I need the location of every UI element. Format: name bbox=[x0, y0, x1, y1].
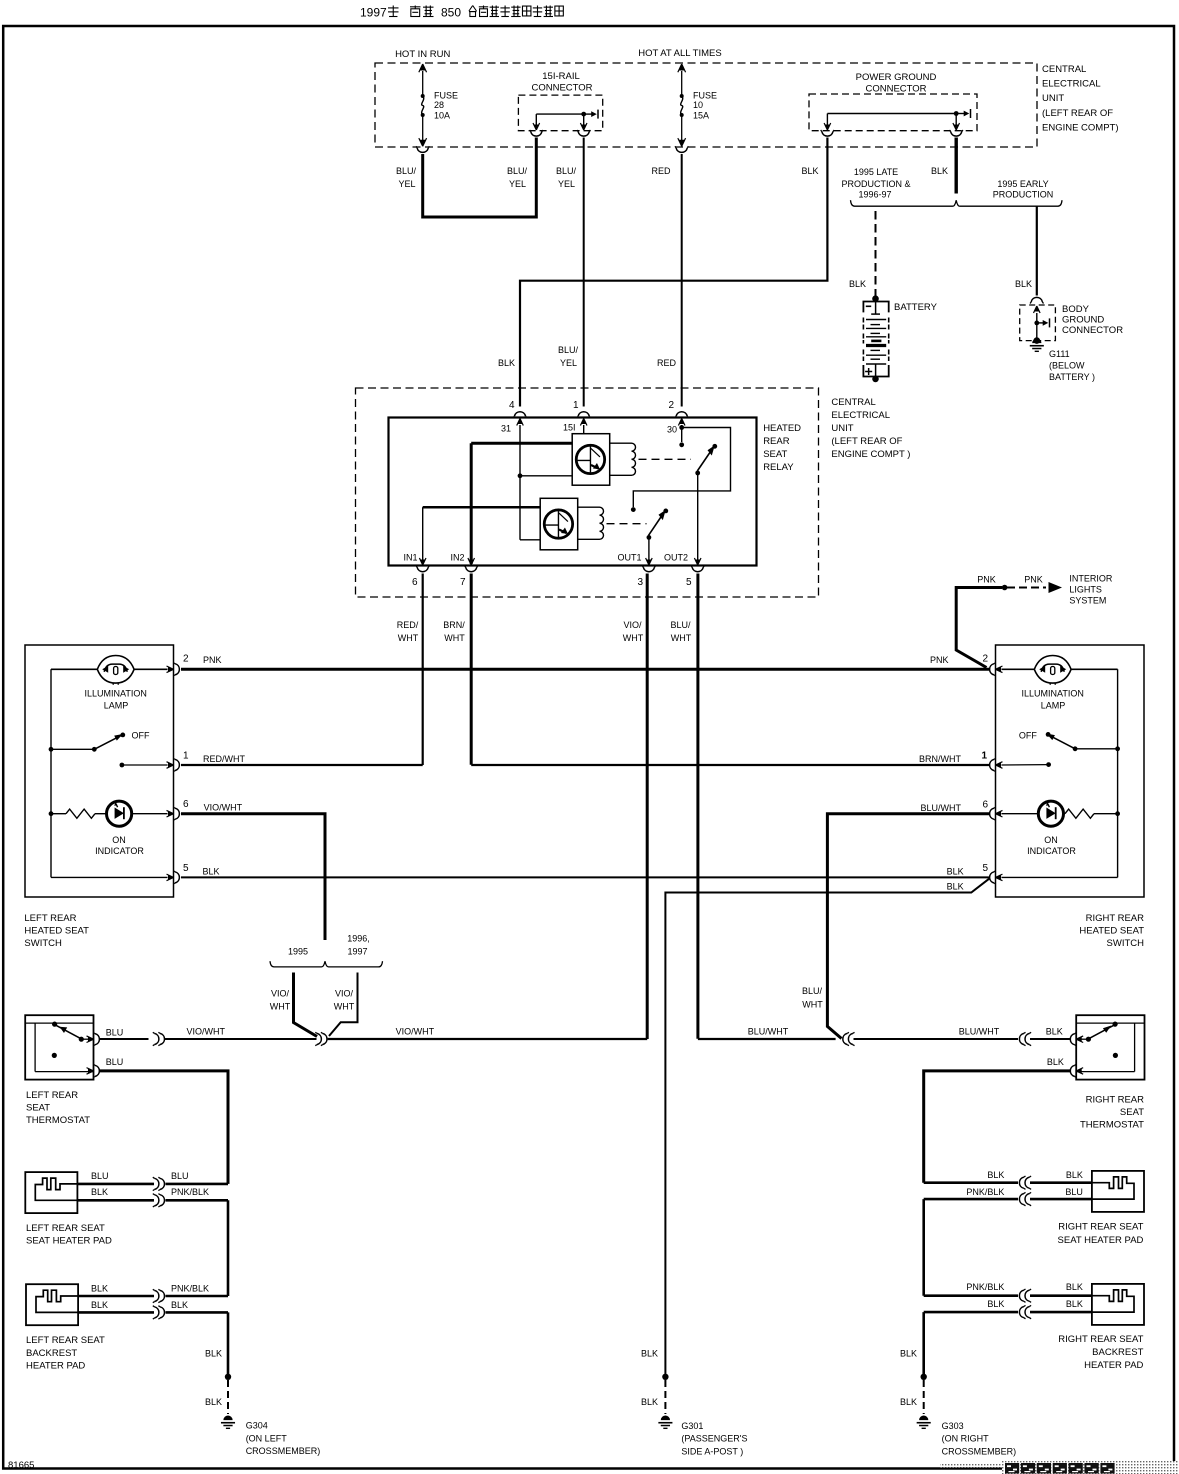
ground G301 bbox=[658, 1416, 672, 1429]
label BLK (right switch pin5 lower) bbox=[947, 882, 964, 892]
ground G111 bbox=[1030, 338, 1044, 351]
svg-text:(ON LEFT: (ON LEFT bbox=[246, 1433, 288, 1443]
svg-text:PRODUCTION &: PRODUCTION & bbox=[841, 179, 910, 189]
svg-text:5: 5 bbox=[183, 863, 189, 874]
label BLU (harness side) bbox=[171, 1171, 189, 1181]
label BLK (pad side, backrest pin1) bbox=[91, 1284, 108, 1294]
svg-text:PNK: PNK bbox=[977, 575, 996, 585]
wire VIO/WHT 1995 variant bbox=[294, 973, 318, 1037]
left switch internal bus wire bbox=[50, 669, 52, 877]
svg-text:BLK: BLK bbox=[1047, 1057, 1064, 1067]
svg-text:BLU: BLU bbox=[91, 1171, 109, 1181]
svg-text:WHT: WHT bbox=[444, 633, 465, 643]
wire BLU thermostat pin2 to seat pad pin1 bbox=[99, 1071, 228, 1184]
svg-text:BATTERY: BATTERY bbox=[894, 302, 938, 313]
left switch pin 2 connector bbox=[167, 663, 180, 676]
relay internal wire OUT1 bbox=[648, 537, 650, 564]
label BLK (dashed, G301) bbox=[641, 1397, 658, 1407]
left switch illumination lamp bbox=[51, 656, 168, 685]
svg-text:ON: ON bbox=[1044, 835, 1058, 845]
svg-text:UNIT: UNIT bbox=[1042, 93, 1064, 104]
svg-text:IN1: IN1 bbox=[403, 553, 417, 563]
wire BLK/PNK-BLK backrest pad pin1 bbox=[78, 1295, 228, 1298]
svg-text:BLK: BLK bbox=[987, 1170, 1004, 1180]
svg-text:YEL: YEL bbox=[560, 358, 577, 368]
relay pin 5 exit connector bbox=[691, 558, 704, 572]
svg-text:BLK: BLK bbox=[203, 867, 220, 877]
svg-text:BACKREST: BACKREST bbox=[26, 1348, 77, 1359]
left switch pin 5 wire bbox=[51, 876, 168, 878]
label ON INDICATOR (right) bbox=[1027, 835, 1076, 856]
label VIO/WHT (1996-97 variant) bbox=[334, 989, 355, 1012]
dashed actuator link (upper) bbox=[639, 458, 692, 460]
right switch pin 6 connector bbox=[990, 807, 1003, 820]
label BLU/YEL (15I-rail left) bbox=[507, 166, 528, 189]
svg-text:(BELOW: (BELOW bbox=[1049, 361, 1085, 371]
relay pin 2 label bbox=[668, 400, 674, 411]
svg-text:10: 10 bbox=[693, 100, 703, 110]
svg-text:WHT: WHT bbox=[671, 633, 692, 643]
svg-text:BLK: BLK bbox=[900, 1349, 917, 1359]
svg-text:30: 30 bbox=[667, 425, 677, 435]
relay internal wire term15I bbox=[583, 425, 585, 434]
svg-text:RIGHT REAR SEAT: RIGHT REAR SEAT bbox=[1058, 1334, 1143, 1345]
label G301 (PASSENGER S SIDE A-POST) bbox=[681, 1421, 747, 1457]
inline connector (seat pad pin2) bbox=[153, 1194, 165, 1207]
label PNK (right switch) bbox=[930, 655, 949, 665]
svg-text:RELAY: RELAY bbox=[763, 462, 794, 473]
svg-text:BLK: BLK bbox=[205, 1397, 222, 1407]
svg-text:BLU: BLU bbox=[171, 1171, 189, 1181]
label PNK/BLK (harness side, seat pad pin2) bbox=[171, 1187, 209, 1197]
dashed actuator link (lower) bbox=[607, 523, 647, 525]
svg-text:PNK: PNK bbox=[930, 655, 949, 665]
svg-text:ELECTRICAL: ELECTRICAL bbox=[831, 410, 890, 421]
right switch pin 1 contact wire bbox=[1002, 762, 1052, 767]
svg-text:VIO/WHT: VIO/WHT bbox=[204, 803, 243, 813]
svg-text:6: 6 bbox=[183, 799, 189, 810]
svg-text:ILLUMINATION: ILLUMINATION bbox=[85, 689, 147, 699]
node HOT IN RUN bbox=[395, 49, 450, 60]
label RED (lower) bbox=[657, 358, 677, 368]
left rear seat seat heater pad bbox=[25, 1172, 77, 1213]
svg-text:LIGHTS: LIGHTS bbox=[1069, 585, 1102, 595]
svg-text:BLU: BLU bbox=[1065, 1187, 1083, 1197]
svg-text:PRODUCTION: PRODUCTION bbox=[993, 190, 1054, 200]
relay pin 1 entry connector bbox=[577, 412, 590, 426]
svg-text:G303: G303 bbox=[942, 1421, 964, 1431]
svg-text:BLK: BLK bbox=[171, 1300, 188, 1310]
relay pin 6 label bbox=[412, 577, 418, 588]
svg-text:OFF: OFF bbox=[132, 731, 150, 741]
label PNK (branch left) bbox=[977, 575, 996, 585]
svg-text:BLU: BLU bbox=[106, 1027, 124, 1037]
right rear seat backrest heater pad bbox=[1092, 1284, 1144, 1325]
svg-text:SEAT: SEAT bbox=[26, 1103, 50, 1114]
right thermostat pin 1 connector bbox=[1070, 1033, 1083, 1046]
inline connector (BLU/WHT to BLK) bbox=[1019, 1032, 1031, 1045]
svg-text:BLK: BLK bbox=[91, 1284, 108, 1294]
svg-text:BLU/: BLU/ bbox=[670, 620, 691, 630]
right switch pin 5 wire bbox=[1002, 876, 1118, 878]
inline connector (right backrest pin1) bbox=[1019, 1289, 1031, 1302]
svg-text:HEATED SEAT: HEATED SEAT bbox=[1079, 926, 1144, 937]
power ground connector bbox=[809, 72, 977, 136]
svg-text:10A: 10A bbox=[434, 111, 450, 121]
svg-text:ON: ON bbox=[112, 835, 126, 845]
label BLU (pad side) bbox=[91, 1171, 109, 1181]
production split brace (left) bbox=[270, 961, 383, 967]
wire BLK switch pin5 bus between switches bbox=[181, 876, 990, 878]
wire VIO/WHT junction to left thermostat bbox=[99, 1032, 316, 1045]
svg-text:(PASSENGER'S: (PASSENGER'S bbox=[681, 1434, 747, 1444]
wire BLK (dashed) to battery bbox=[875, 211, 877, 296]
label IN1 bbox=[403, 553, 417, 563]
svg-text:RIGHT REAR SEAT: RIGHT REAR SEAT bbox=[1058, 1222, 1143, 1233]
label BODY GROUND CONNECTOR bbox=[1062, 304, 1123, 336]
ground G303 bbox=[917, 1416, 931, 1429]
svg-text:SEAT: SEAT bbox=[1120, 1107, 1144, 1118]
label G111 (BELOW BATTERY) bbox=[1049, 349, 1095, 382]
wire BLK right seat pad pin1 bbox=[924, 1181, 1092, 1184]
svg-text:SWITCH: SWITCH bbox=[1107, 938, 1145, 949]
inline connector (right backrest pin2) bbox=[1019, 1305, 1031, 1318]
inline connector (right seat pad pin2) bbox=[1019, 1192, 1031, 1205]
svg-text:BLU/: BLU/ bbox=[556, 166, 577, 176]
svg-text:7: 7 bbox=[460, 577, 466, 588]
wire BLU/WHT relay pin5 down to right thermostat run bbox=[698, 574, 836, 1040]
label BLK (body ground wire) bbox=[1015, 279, 1032, 289]
svg-text:LEFT REAR: LEFT REAR bbox=[24, 913, 76, 924]
left rear seat thermostat box bbox=[25, 1015, 93, 1079]
label VIO/WHT (vertical) bbox=[623, 620, 644, 643]
wire BLK right backrest pin2 to ground bbox=[924, 1312, 1092, 1377]
label PNK/BLK (harness side, backrest pin1) bbox=[171, 1284, 209, 1294]
right switch internal bus wire bbox=[1117, 669, 1119, 877]
left switch pin 1 connector bbox=[167, 758, 180, 771]
left rear seat backrest heater pad bbox=[26, 1284, 78, 1325]
label BLK (to relay pin 4) bbox=[498, 358, 515, 368]
svg-text:CONNECTOR: CONNECTOR bbox=[865, 84, 926, 95]
wire VIO/WHT 1996-97 variant bbox=[329, 973, 358, 1037]
label BLK (ground wire) bbox=[931, 166, 948, 176]
wire PNK/BLK-BLU right seat pad pin2 bbox=[924, 1199, 1092, 1296]
right switch pin 5 label bbox=[982, 863, 988, 874]
svg-text:INTERIOR: INTERIOR bbox=[1069, 574, 1113, 584]
svg-text:WHT: WHT bbox=[334, 1002, 355, 1012]
svg-text:BRN/: BRN/ bbox=[443, 620, 465, 630]
svg-text:SYSTEM: SYSTEM bbox=[1069, 596, 1106, 606]
relay driver transistor (upper) bbox=[572, 434, 610, 486]
label OFF (right) bbox=[1019, 731, 1037, 741]
label BLK (right switch pin5 upper) bbox=[947, 866, 964, 876]
label PNK/BLK (harness, right backrest pin1) bbox=[966, 1282, 1004, 1292]
svg-text:15A: 15A bbox=[693, 111, 709, 121]
svg-text:PNK/BLK: PNK/BLK bbox=[966, 1187, 1004, 1197]
svg-text:BLU/: BLU/ bbox=[396, 166, 417, 176]
svg-text:LAMP: LAMP bbox=[104, 701, 129, 711]
svg-text:6: 6 bbox=[412, 577, 418, 588]
label BLU (thermostat pin2) bbox=[106, 1057, 124, 1067]
svg-text:1: 1 bbox=[981, 751, 987, 762]
relay pin 7 exit connector bbox=[465, 558, 478, 572]
wire BLK right thermostat pin2 to seat pad pin1 bbox=[924, 1071, 1071, 1183]
svg-text:2: 2 bbox=[668, 400, 674, 411]
svg-text:BLK: BLK bbox=[947, 882, 964, 892]
label BLK (harness, right backrest pin2) bbox=[987, 1299, 1004, 1309]
heated rear seat relay box bbox=[389, 418, 757, 566]
svg-text:BLK: BLK bbox=[1046, 1027, 1063, 1037]
wire BLK right switch pin5 to ground G301 bbox=[665, 878, 989, 1376]
svg-text:6: 6 bbox=[982, 800, 988, 811]
label 1995 EARLY PRODUCTION bbox=[993, 179, 1054, 200]
svg-text:SEAT: SEAT bbox=[763, 449, 787, 460]
relay pin 3 label bbox=[637, 577, 643, 588]
label OUT1 bbox=[617, 553, 641, 563]
svg-text:ENGINE COMPT): ENGINE COMPT) bbox=[1042, 122, 1119, 133]
label OUT2 bbox=[664, 553, 688, 563]
right rear seat seat heater pad bbox=[1092, 1171, 1144, 1212]
svg-text:HEATED: HEATED bbox=[763, 423, 801, 434]
fuse 28 10A bbox=[419, 64, 458, 146]
svg-text:REAR: REAR bbox=[763, 436, 790, 447]
wire RED from fuse 10 to relay pin 2 bbox=[681, 154, 683, 407]
production variant brace bbox=[851, 200, 1063, 206]
label VIO/WHT (right of junction) bbox=[396, 1027, 435, 1037]
label HEATED REAR SEAT RELAY bbox=[763, 423, 801, 473]
label BLU/WHT (left of cups) bbox=[748, 1027, 789, 1037]
inline connector (backrest pad pin1) bbox=[153, 1289, 165, 1302]
svg-text:BLU/: BLU/ bbox=[507, 166, 528, 176]
relay terminal 30 label bbox=[667, 425, 677, 435]
label RIGHT REAR SEAT THERMOSTAT bbox=[1080, 1095, 1144, 1131]
svg-text:2: 2 bbox=[183, 654, 189, 665]
right switch illumination lamp bbox=[1002, 656, 1118, 685]
label BLK (pad side, right backrest pin2) bbox=[1066, 1299, 1083, 1309]
label RIGHT REAR HEATED SEAT SWITCH bbox=[1079, 913, 1144, 949]
svg-text:BLU/WHT: BLU/WHT bbox=[748, 1027, 789, 1037]
relay internal wire term30 bbox=[631, 425, 731, 512]
right rear heated seat switch box bbox=[996, 645, 1145, 897]
svg-text:HEATER PAD: HEATER PAD bbox=[1084, 1360, 1143, 1371]
svg-text:BLK: BLK bbox=[498, 358, 515, 368]
svg-text:WHT: WHT bbox=[398, 633, 419, 643]
relay contact switch (upper, OUT2) bbox=[695, 444, 717, 476]
svg-text:5: 5 bbox=[982, 863, 988, 874]
svg-text:850: 850 bbox=[441, 6, 461, 20]
svg-text:G301: G301 bbox=[681, 1421, 703, 1431]
label PNK (branch right) bbox=[1024, 575, 1043, 585]
label ILLUMINATION LAMP (right) bbox=[1022, 689, 1084, 711]
inline connector (right seat pad pin1) bbox=[1019, 1176, 1031, 1189]
relay driver transistor (lower) bbox=[540, 498, 578, 550]
svg-text:(LEFT REAR OF: (LEFT REAR OF bbox=[831, 436, 902, 447]
relay pin 4 entry connector bbox=[513, 412, 526, 426]
left switch pin 6 label bbox=[183, 799, 189, 810]
left thermostat pin 2 connector bbox=[87, 1064, 100, 1077]
svg-text:2: 2 bbox=[982, 654, 988, 665]
svg-text:(LEFT REAR OF: (LEFT REAR OF bbox=[1042, 108, 1113, 119]
wire RED/WHT relay pin6 to left switch pin1 bbox=[181, 574, 423, 766]
wire VIO/WHT left switch pin6 to production split bbox=[181, 814, 325, 940]
svg-text:INDICATOR: INDICATOR bbox=[95, 846, 144, 856]
label BLK (dashed, G303) bbox=[900, 1397, 917, 1407]
label BLU/WHT (vertical) bbox=[670, 620, 691, 643]
relay pin 4 label bbox=[509, 400, 515, 411]
junction dot G301 wire bbox=[662, 1374, 668, 1380]
right switch pin 5 connector bbox=[990, 871, 1003, 884]
svg-text:OUT1: OUT1 bbox=[617, 553, 641, 563]
relay internal wire OUT2 bbox=[697, 473, 699, 564]
svg-text:CENTRAL: CENTRAL bbox=[831, 397, 875, 408]
label RIGHT REAR SEAT SEAT HEATER PAD bbox=[1058, 1222, 1144, 1247]
svg-text:PNK/BLK: PNK/BLK bbox=[171, 1187, 209, 1197]
label BLK (pad side, backrest pin2) bbox=[91, 1300, 108, 1310]
left switch resistor bbox=[49, 809, 107, 818]
left switch pin 2 label bbox=[183, 654, 189, 665]
svg-text:BLU/: BLU/ bbox=[558, 345, 579, 355]
label BLK (pad side, right pad pin1) bbox=[1066, 1170, 1083, 1180]
wire BLK from power ground connector to relay pin 4 bbox=[520, 138, 827, 407]
label VIO/WHT (left of junction) bbox=[187, 1027, 226, 1037]
svg-text:ENGINE COMPT ): ENGINE COMPT ) bbox=[831, 449, 910, 460]
right switch pin 6 label bbox=[982, 800, 988, 811]
wire BLU/YEL from fuse 28 to 15I-rail connector bbox=[423, 138, 537, 219]
svg-text:RIGHT REAR: RIGHT REAR bbox=[1086, 913, 1145, 924]
left switch ON indicator LED bbox=[107, 801, 168, 826]
svg-text:LEFT REAR SEAT: LEFT REAR SEAT bbox=[26, 1335, 105, 1346]
central electrical unit (top) label bbox=[1042, 64, 1119, 133]
left thermostat switch bbox=[52, 1022, 90, 1059]
label INTERIOR LIGHTS SYSTEM bbox=[1069, 574, 1113, 606]
label RED (upper) bbox=[651, 166, 671, 176]
svg-text:PNK: PNK bbox=[203, 655, 222, 665]
label BLU (pad side, right pad pin2) bbox=[1065, 1187, 1083, 1197]
svg-text:1: 1 bbox=[573, 400, 579, 411]
label BLU/YEL (fuse 28) bbox=[396, 166, 417, 189]
svg-text:WHT: WHT bbox=[802, 1000, 823, 1010]
wire BLU/WHT right switch pin6 to junction bbox=[827, 814, 989, 1039]
svg-text:BLK: BLK bbox=[1015, 279, 1032, 289]
svg-text:BACKREST: BACKREST bbox=[1092, 1347, 1143, 1358]
svg-text:15I: 15I bbox=[563, 423, 576, 433]
fuse 28 output connector bbox=[416, 146, 429, 152]
label BLU/WHT (right of cups) bbox=[959, 1027, 1000, 1037]
wire BRN/WHT relay pin7 to right switch pin1 bbox=[471, 574, 989, 766]
relay terminal 31 label bbox=[501, 424, 511, 434]
junction dot G303 wire bbox=[921, 1374, 927, 1380]
svg-text:ILLUMINATION: ILLUMINATION bbox=[1022, 689, 1084, 699]
wire BLK dashed to G303 bbox=[923, 1380, 925, 1414]
svg-text:1995 LATE: 1995 LATE bbox=[854, 167, 898, 177]
label BLK (pad side, seat pad pin2) bbox=[91, 1187, 108, 1197]
svg-text:LEFT REAR: LEFT REAR bbox=[26, 1090, 78, 1101]
svg-text:1995: 1995 bbox=[288, 947, 308, 957]
label IN2 bbox=[450, 553, 464, 563]
fuse 10 output connector bbox=[675, 146, 688, 152]
label BLK (right thermostat pin1) bbox=[1046, 1027, 1063, 1037]
left switch OFF contact bbox=[49, 733, 126, 752]
fuse 10 15A bbox=[678, 64, 717, 146]
svg-text:BLK: BLK bbox=[641, 1397, 658, 1407]
svg-text:CONNECTOR: CONNECTOR bbox=[531, 82, 592, 93]
right switch pin 2 label bbox=[982, 654, 988, 665]
title: 1997 Volvo 850 rear seat heater circuit diagram bbox=[360, 6, 563, 20]
label RED/WHT (left switch) bbox=[203, 754, 245, 764]
svg-text:SEAT HEATER PAD: SEAT HEATER PAD bbox=[1058, 1235, 1144, 1246]
wire BLK from power ground connector to production split bbox=[955, 138, 958, 194]
svg-text:1996,: 1996, bbox=[347, 934, 370, 944]
relay pin 2 entry connector bbox=[675, 412, 688, 426]
svg-text:HEATED SEAT: HEATED SEAT bbox=[24, 926, 89, 937]
inline connector (seat pad pin1) bbox=[153, 1177, 165, 1190]
svg-text:81665: 81665 bbox=[8, 1460, 34, 1471]
relay internal wire IN1 bbox=[423, 507, 541, 564]
svg-text:15I-RAIL: 15I-RAIL bbox=[542, 71, 580, 82]
label BLU/YEL (to relay, upper) bbox=[556, 166, 577, 189]
svg-text:VIO/: VIO/ bbox=[271, 989, 290, 999]
wire BLU/WHT junction to right thermostat bbox=[854, 1038, 1071, 1040]
svg-text:BATTERY ): BATTERY ) bbox=[1049, 372, 1095, 382]
svg-text:BLK: BLK bbox=[1066, 1282, 1083, 1292]
svg-text:POWER GROUND: POWER GROUND bbox=[856, 72, 937, 83]
wire BLK dashed to G301 bbox=[664, 1380, 666, 1414]
svg-text:BLK: BLK bbox=[801, 166, 818, 176]
svg-text:IN2: IN2 bbox=[450, 553, 464, 563]
svg-text:OFF: OFF bbox=[1019, 731, 1037, 741]
svg-text:CONNECTOR: CONNECTOR bbox=[1062, 325, 1123, 336]
svg-text:LEFT REAR SEAT: LEFT REAR SEAT bbox=[26, 1223, 105, 1234]
relay pin 6 exit connector bbox=[416, 558, 429, 572]
junction dot G304 wire bbox=[225, 1374, 231, 1380]
svg-text:VIO/WHT: VIO/WHT bbox=[396, 1027, 435, 1037]
relay coil (lower) bbox=[578, 507, 604, 539]
svg-text:UNIT: UNIT bbox=[831, 423, 853, 434]
svg-text:VIO/WHT: VIO/WHT bbox=[187, 1027, 226, 1037]
label OFF (left) bbox=[132, 731, 150, 741]
body ground connector bbox=[1020, 297, 1056, 344]
svg-text:YEL: YEL bbox=[558, 179, 575, 189]
label 1995 (left variant) bbox=[288, 947, 308, 957]
svg-text:WHT: WHT bbox=[270, 1002, 291, 1012]
svg-text:28: 28 bbox=[434, 100, 444, 110]
left rear heated seat switch box bbox=[25, 645, 174, 897]
svg-text:HOT IN RUN: HOT IN RUN bbox=[395, 49, 450, 60]
label BLK (pad side, right backrest pin1) bbox=[1066, 1282, 1083, 1292]
svg-text:BLU/: BLU/ bbox=[802, 986, 823, 996]
label RIGHT REAR SEAT BACKREST HEATER PAD bbox=[1058, 1334, 1143, 1371]
svg-text:BLK: BLK bbox=[1066, 1170, 1083, 1180]
label VIO/WHT (left switch) bbox=[204, 803, 243, 813]
label BLU (thermostat pin1) bbox=[106, 1027, 124, 1037]
svg-text:PNK/BLK: PNK/BLK bbox=[171, 1284, 209, 1294]
svg-text:THERMOSTAT: THERMOSTAT bbox=[26, 1115, 90, 1126]
label BLK (harness, right pad pin1) bbox=[987, 1170, 1004, 1180]
relay contact switch (lower, OUT1) bbox=[647, 509, 669, 540]
svg-text:BLK: BLK bbox=[91, 1187, 108, 1197]
label BRN/WHT (right switch) bbox=[919, 754, 961, 764]
svg-text:BLK: BLK bbox=[1066, 1299, 1083, 1309]
left switch pin 5 label bbox=[183, 863, 189, 874]
svg-text:GROUND: GROUND bbox=[1062, 315, 1104, 326]
svg-text:BLU: BLU bbox=[106, 1057, 124, 1067]
svg-text:VIO/: VIO/ bbox=[335, 989, 354, 999]
svg-text:4: 4 bbox=[509, 400, 515, 411]
label LEFT REAR SEAT BACKREST HEATER PAD bbox=[26, 1335, 105, 1372]
battery bbox=[863, 295, 888, 382]
label 1996, 1997 (right variant) bbox=[347, 934, 370, 957]
svg-text:ELECTRICAL: ELECTRICAL bbox=[1042, 79, 1101, 90]
